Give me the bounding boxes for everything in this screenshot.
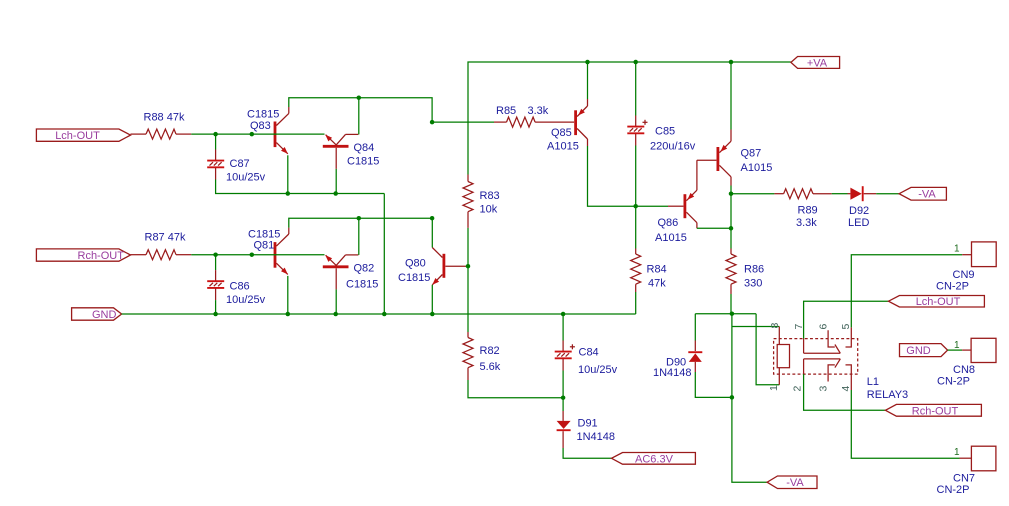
junction bbox=[585, 60, 590, 65]
svg-text:Lch-OUT: Lch-OUT bbox=[916, 296, 961, 308]
resistor R86 bbox=[726, 249, 736, 295]
svg-text:-VA: -VA bbox=[786, 477, 804, 489]
wire D90 top bbox=[694, 314, 696, 341]
svg-text:3: 3 bbox=[817, 386, 829, 392]
wire Q84 collector up bbox=[358, 98, 360, 135]
svg-text:CN9: CN9 bbox=[953, 269, 975, 281]
resistor R88 bbox=[131, 129, 192, 139]
svg-text:C86: C86 bbox=[230, 280, 250, 292]
resistor R87 bbox=[131, 250, 192, 260]
svg-text:10u/25v: 10u/25v bbox=[578, 364, 618, 376]
port Rch-OUT (right) bbox=[885, 404, 981, 416]
svg-text:RELAY3: RELAY3 bbox=[867, 389, 908, 401]
relay pin 1 lead bbox=[778, 368, 780, 385]
wire emitter rail drop bbox=[383, 194, 385, 315]
svg-text:Q84: Q84 bbox=[354, 142, 375, 154]
svg-text:1: 1 bbox=[954, 244, 960, 255]
port GND (right) bbox=[900, 344, 948, 357]
relay bottom contact blade bbox=[835, 359, 840, 368]
svg-text:5: 5 bbox=[840, 324, 852, 330]
svg-text:AC6.3V: AC6.3V bbox=[635, 453, 674, 465]
junction bbox=[730, 395, 735, 400]
transistor Q81 bbox=[275, 228, 289, 275]
capacitor C86 bbox=[207, 270, 224, 300]
connector CN8 box bbox=[971, 338, 996, 362]
svg-text:10u/25v: 10u/25v bbox=[226, 171, 266, 183]
connector CN8 pin 1 lead bbox=[962, 349, 971, 351]
wire GND rail bbox=[122, 313, 636, 315]
wire Q87 collector node bbox=[730, 186, 732, 229]
wire Q85 collector down bbox=[588, 146, 669, 206]
junction bbox=[382, 312, 387, 317]
svg-text:C1815: C1815 bbox=[347, 155, 379, 167]
wire C85 bottom bbox=[635, 146, 637, 207]
wire to -VA bottom bbox=[732, 397, 767, 482]
port -VA (bottom) bbox=[767, 476, 817, 489]
svg-text:C1815: C1815 bbox=[398, 272, 430, 284]
wire D91 top bbox=[562, 398, 564, 411]
junction Q80 base node bbox=[466, 264, 471, 269]
capacitor C85 labels bbox=[650, 125, 696, 152]
relay pin 7 lead bbox=[803, 339, 805, 354]
port +VA bbox=[791, 57, 840, 69]
wire to -VA port bbox=[876, 193, 899, 195]
diode D91 labels bbox=[577, 417, 616, 443]
connector CN9 pin 1 lead bbox=[962, 254, 971, 256]
connector CN7 box bbox=[971, 446, 996, 471]
svg-text:A1015: A1015 bbox=[547, 141, 579, 153]
svg-text:330: 330 bbox=[744, 278, 762, 290]
relay L1 labels bbox=[867, 376, 908, 401]
wire Lch node bbox=[191, 133, 273, 135]
svg-text:C84: C84 bbox=[579, 347, 599, 359]
relay bottom contact common bar bbox=[804, 358, 841, 360]
transistor Q82 labels bbox=[346, 262, 378, 290]
svg-text:L1: L1 bbox=[867, 376, 879, 388]
relay pin 5 lead and hook bbox=[846, 327, 852, 347]
wire C87 bottom to rail bbox=[216, 180, 385, 194]
svg-text:+VA: +VA bbox=[807, 57, 828, 69]
relay pin 3 lead and hook bbox=[828, 365, 835, 382]
junction bbox=[430, 216, 435, 221]
svg-text:5.6k: 5.6k bbox=[480, 361, 501, 373]
diode D92 labels bbox=[848, 205, 869, 229]
transistor Q86 bbox=[668, 160, 716, 228]
transistor Q82 bbox=[323, 255, 359, 290]
diode D91 bbox=[557, 411, 571, 448]
junction bbox=[250, 252, 255, 257]
wire Q82 collector up bbox=[358, 218, 360, 255]
svg-text:Lch-OUT: Lch-OUT bbox=[55, 130, 100, 142]
svg-text:R88 47k: R88 47k bbox=[144, 111, 185, 123]
port Lch-OUT (right) bbox=[889, 296, 985, 308]
junction bbox=[561, 312, 566, 317]
svg-text:R86: R86 bbox=[744, 264, 764, 276]
svg-text:47k: 47k bbox=[648, 278, 666, 290]
connector CN7 pin 1 lead bbox=[960, 457, 972, 459]
capacitor C87 bbox=[207, 150, 224, 180]
svg-text:A1015: A1015 bbox=[741, 162, 773, 174]
svg-text:1: 1 bbox=[954, 340, 960, 351]
wire GND to CN8 bbox=[948, 349, 963, 351]
wire Q84 base down bbox=[335, 169, 337, 194]
resistor R85 bbox=[494, 117, 574, 127]
wire Q85 emitter to rail bbox=[587, 62, 589, 99]
svg-text:Q86: Q86 bbox=[658, 217, 679, 229]
svg-text:GND: GND bbox=[92, 309, 117, 321]
wire pin8 node vertical bbox=[731, 314, 733, 398]
wire C84 top bbox=[562, 314, 564, 341]
relay pin 2 lead bbox=[803, 359, 805, 374]
wire R84 top bbox=[635, 206, 637, 248]
svg-text:CN-2P: CN-2P bbox=[936, 281, 969, 293]
transistor Q85 bbox=[576, 99, 588, 146]
transistor Q80 bbox=[432, 248, 466, 285]
resistor R84 labels bbox=[647, 264, 667, 290]
junction bbox=[213, 312, 218, 317]
svg-text:Q83: Q83 bbox=[250, 120, 271, 132]
port AC6.3V bbox=[612, 453, 696, 465]
svg-text:Rch-OUT: Rch-OUT bbox=[78, 250, 125, 262]
svg-text:6: 6 bbox=[817, 324, 829, 330]
connector CN8 labels bbox=[937, 364, 975, 387]
connector CN7 labels bbox=[937, 472, 976, 496]
svg-text:1N4148: 1N4148 bbox=[577, 431, 616, 443]
svg-text:C85: C85 bbox=[655, 125, 675, 137]
capacitor C85 plus sign bbox=[643, 120, 648, 125]
capacitor C84 labels bbox=[578, 347, 618, 377]
resistor R82 labels bbox=[480, 345, 501, 373]
transistor Q80 labels bbox=[398, 257, 430, 284]
junction bbox=[730, 311, 735, 316]
port Rch-OUT (left input) bbox=[36, 249, 130, 261]
junction bbox=[633, 204, 638, 209]
resistor R86 labels bbox=[744, 264, 764, 290]
svg-text:Rch-OUT: Rch-OUT bbox=[912, 405, 959, 417]
wire Q84 emitter link bbox=[274, 133, 325, 135]
svg-text:CN7: CN7 bbox=[953, 472, 975, 484]
svg-text:220u/16v: 220u/16v bbox=[650, 140, 696, 152]
wire Q81 emitter down bbox=[287, 276, 289, 314]
wire R86 bottom bbox=[730, 294, 732, 314]
relay L1 dashed body bbox=[774, 339, 858, 375]
svg-text:3.3k: 3.3k bbox=[796, 217, 817, 229]
wire R89 row bbox=[731, 193, 774, 195]
capacitor C84 plus sign bbox=[570, 344, 575, 349]
junction bbox=[729, 191, 734, 196]
wire to D92 bbox=[832, 193, 848, 195]
wire R85 row bbox=[432, 121, 494, 123]
port Lch-OUT (left input) bbox=[36, 129, 130, 141]
svg-text:1N4148: 1N4148 bbox=[653, 367, 692, 379]
svg-text:R82: R82 bbox=[480, 345, 500, 357]
wire D90 bottom bbox=[695, 372, 732, 397]
transistor Q85 labels bbox=[547, 127, 579, 152]
junction bbox=[286, 312, 291, 317]
svg-text:A1015: A1015 bbox=[655, 232, 687, 244]
resistor R83 bbox=[463, 175, 473, 228]
wire relay pin4 down to CN7 bbox=[851, 390, 959, 458]
svg-text:Q85: Q85 bbox=[551, 127, 572, 139]
connector CN9 box bbox=[972, 242, 997, 267]
relay L1 coil bbox=[777, 345, 789, 368]
junction bbox=[633, 60, 638, 65]
wire Q83 collector rail bbox=[289, 98, 432, 122]
wire relay pin7 to Lch-OUT bbox=[804, 301, 889, 338]
wire Q83 collector bbox=[287, 155, 289, 193]
svg-text:D92: D92 bbox=[849, 205, 869, 217]
svg-text:R87 47k: R87 47k bbox=[145, 232, 186, 244]
resistor R83 labels bbox=[480, 190, 500, 215]
svg-text:1: 1 bbox=[768, 385, 780, 391]
wire Q87 emitter to rail bbox=[730, 62, 732, 130]
resistor R89 labels bbox=[796, 204, 818, 229]
transistor Q86 labels bbox=[655, 217, 687, 244]
transistor Q84 bbox=[323, 134, 359, 169]
svg-text:C1815: C1815 bbox=[248, 228, 280, 240]
wire relay pin5 to CN9 bbox=[851, 255, 962, 328]
junction bbox=[333, 191, 338, 196]
wire Rch node bbox=[191, 254, 273, 256]
wire Q80 emitter down bbox=[431, 285, 433, 314]
svg-text:D91: D91 bbox=[578, 417, 598, 429]
wire relay pin2+pin4 to Rch-OUT bbox=[804, 374, 886, 410]
wire +VA top rail bbox=[468, 62, 791, 175]
svg-text:2: 2 bbox=[791, 386, 803, 392]
wire Q86 collector to node bbox=[697, 227, 731, 229]
transistor Q81 labels bbox=[248, 228, 280, 251]
resistor R84 bbox=[631, 249, 641, 293]
transistor Q83 labels bbox=[247, 109, 279, 132]
capacitor C85 bbox=[627, 116, 644, 146]
wire C84 bottom bbox=[562, 371, 564, 398]
svg-text:LED: LED bbox=[848, 217, 869, 229]
wire node to relay pin1 bbox=[756, 314, 779, 385]
capacitor C84 bbox=[555, 341, 572, 371]
svg-text:CN-2P: CN-2P bbox=[937, 484, 970, 496]
port GND (left) bbox=[72, 308, 122, 320]
svg-text:Q81: Q81 bbox=[254, 240, 275, 252]
junction bbox=[286, 191, 291, 196]
svg-text:Q87: Q87 bbox=[741, 147, 762, 159]
svg-text:R89: R89 bbox=[798, 204, 818, 216]
wire Q80 collector up bbox=[431, 218, 433, 247]
wire C85 top bbox=[635, 62, 637, 116]
svg-text:-VA: -VA bbox=[918, 189, 936, 201]
wire D91 to AC6.3V bbox=[563, 448, 611, 458]
wire R82 bottom bbox=[468, 380, 563, 398]
junction bbox=[561, 395, 566, 400]
junction bbox=[729, 60, 734, 65]
svg-text:Q80: Q80 bbox=[405, 257, 426, 269]
junction bbox=[430, 120, 435, 125]
junction bbox=[213, 252, 218, 257]
junction bbox=[357, 95, 362, 100]
svg-text:4: 4 bbox=[840, 386, 852, 392]
svg-text:Q82: Q82 bbox=[354, 262, 375, 274]
svg-text:R85: R85 bbox=[496, 105, 516, 117]
port -VA (right) bbox=[899, 187, 946, 200]
relay top contact common bar bbox=[804, 352, 841, 354]
relay pin 8 lead bbox=[778, 327, 780, 345]
resistor R89 bbox=[774, 189, 831, 199]
resistor R82 bbox=[463, 332, 473, 380]
transistor Q83 bbox=[275, 107, 289, 154]
svg-text:C1815: C1815 bbox=[247, 109, 279, 121]
diode D90 bbox=[688, 341, 702, 373]
transistor Q87 bbox=[718, 130, 731, 186]
connector CN9 labels bbox=[936, 269, 975, 292]
svg-text:CN-2P: CN-2P bbox=[937, 375, 970, 387]
svg-text:3.3k: 3.3k bbox=[528, 105, 549, 117]
svg-text:C1815: C1815 bbox=[346, 278, 378, 290]
wire Q82 base down bbox=[335, 289, 337, 314]
wire R86 top bbox=[730, 228, 732, 248]
relay pin 6 lead and hook bbox=[828, 330, 835, 347]
relay pin 4 lead and hook bbox=[846, 365, 852, 390]
wire C86 bottom bbox=[215, 300, 217, 314]
diode D92 bbox=[848, 186, 877, 201]
wire C86 top bbox=[215, 255, 217, 270]
svg-text:R83: R83 bbox=[480, 190, 500, 202]
svg-text:CN8: CN8 bbox=[953, 364, 975, 376]
wire C87 top bbox=[215, 134, 217, 149]
relay top contact blade bbox=[835, 345, 840, 354]
wire Q82 emitter link bbox=[274, 254, 325, 256]
transistor Q87 labels bbox=[741, 147, 773, 174]
junction bbox=[333, 312, 338, 317]
svg-text:10k: 10k bbox=[480, 204, 498, 216]
wire R83 bottom to Q80 base bbox=[467, 228, 469, 332]
transistor Q84 labels bbox=[347, 142, 379, 168]
diode D90 labels bbox=[653, 356, 692, 379]
wire R84 bottom to GND rail bbox=[635, 292, 637, 314]
wire node to relay pin8 bbox=[732, 326, 779, 328]
junction bbox=[213, 132, 218, 137]
wire R86 bottom node bbox=[695, 313, 756, 315]
svg-text:8: 8 bbox=[769, 323, 781, 329]
svg-text:1: 1 bbox=[954, 447, 960, 458]
svg-text:10u/25v: 10u/25v bbox=[226, 294, 266, 306]
junction bbox=[729, 226, 734, 231]
junction bbox=[250, 132, 255, 137]
capacitor C87 labels bbox=[226, 158, 266, 184]
svg-text:C87: C87 bbox=[230, 158, 250, 170]
junction bbox=[430, 312, 435, 317]
resistor R85 labels bbox=[496, 105, 549, 117]
svg-text:R84: R84 bbox=[647, 264, 667, 276]
svg-text:GND: GND bbox=[906, 345, 931, 357]
capacitor C86 labels bbox=[226, 280, 266, 306]
wire Q81 collector rail bbox=[289, 218, 432, 227]
junction bbox=[357, 216, 362, 221]
